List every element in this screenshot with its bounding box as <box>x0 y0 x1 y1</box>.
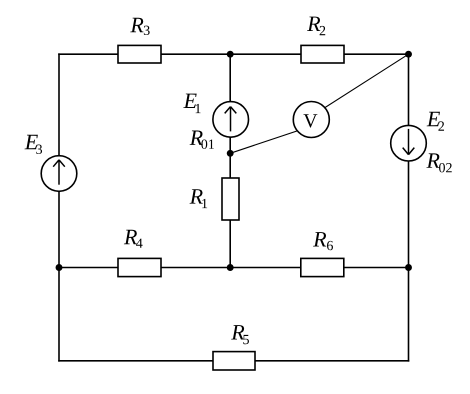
resistor R1 <box>222 178 239 220</box>
label E2 <box>427 112 444 131</box>
wire voltmeter lead from node below E1 <box>230 126 311 153</box>
resistor R6 <box>301 258 344 276</box>
node dot below E1 <box>227 150 234 157</box>
wire bottom rail <box>59 360 409 362</box>
node dot top middle <box>227 51 234 58</box>
wire top rail <box>59 53 409 55</box>
node dot top right <box>405 51 412 58</box>
wire voltmeter lead to top right node <box>311 54 409 116</box>
label E3 <box>25 135 43 154</box>
source E1 <box>213 102 249 138</box>
label R6 <box>313 232 333 250</box>
wire middle horizontal rail <box>59 267 409 269</box>
label R5 <box>231 325 249 344</box>
label R02 <box>426 153 451 172</box>
wire left branch <box>58 54 60 361</box>
node dot middle right <box>405 264 412 271</box>
source E2 <box>391 125 427 161</box>
resistor R2 <box>301 45 344 63</box>
label R2 <box>307 17 325 36</box>
label R3 <box>130 18 149 35</box>
source E3 <box>41 156 77 192</box>
node dot middle center <box>227 264 234 271</box>
resistor R3 <box>118 45 161 63</box>
label E1 <box>183 94 200 114</box>
label R1 <box>190 189 208 208</box>
wire right branch <box>408 54 410 361</box>
label R4 <box>124 230 143 248</box>
label R01 <box>190 130 214 148</box>
node dot middle left <box>56 264 63 271</box>
wire middle vertical branch <box>229 54 231 267</box>
resistor R5 <box>213 352 255 370</box>
resistor R4 <box>118 258 161 276</box>
voltmeter V <box>293 102 329 138</box>
